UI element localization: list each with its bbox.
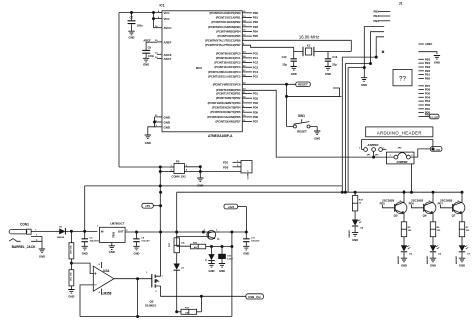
svg-text:G: G — [217, 237, 220, 241]
svg-text:GND: GND — [291, 72, 297, 76]
header name box ARDUINO_HEADER — [366, 127, 433, 137]
main +5V rail from regulator — [125, 231, 246, 233]
base net label PD5 — [380, 201, 395, 207]
svg-text:CONN_3: CONN_3 — [248, 170, 250, 180]
svg-text:C11: C11 — [251, 238, 256, 240]
svg-text:C13: C13 — [332, 55, 337, 59]
svg-text:BARREL_JACK: BARREL_JACK — [12, 245, 36, 249]
junction R17 left on zener leg — [176, 311, 178, 313]
svg-text:MCU: MCU — [196, 66, 202, 70]
resistor R11 divider bottom — [69, 263, 74, 289]
header pin PB0 — [418, 77, 430, 81]
ground below D5 — [401, 258, 407, 267]
svg-text:+3v3: +3v3 — [228, 205, 235, 209]
capacitor C6 100u/16V — [82, 231, 100, 246]
svg-text:USB_Vcc: USB_Vcc — [248, 295, 261, 299]
ground below C12 — [291, 67, 297, 76]
svg-text:PD4: PD4 — [253, 106, 259, 110]
svg-text:(PCINT19/OC2B/INT1)PD3: (PCINT19/OC2B/INT1)PD3 — [208, 101, 241, 105]
svg-text:X1: X1 — [307, 43, 311, 47]
svg-text:PC_INT: PC_INT — [430, 117, 438, 119]
wire P2 pin2 pin4 to gnd — [188, 167, 200, 178]
pin PC2 25 with net label PC2 — [242, 61, 258, 65]
junction pad2 on serial wire — [373, 156, 375, 158]
net flag +5V — [142, 203, 162, 208]
junction P2 gnd tie — [199, 166, 201, 173]
resistor R5 emitter — [401, 222, 412, 246]
svg-text:PD7: PD7 — [253, 120, 259, 124]
svg-text:(PCINT13/SCL/ADC5)PC5: (PCINT13/SCL/ADC5)PC5 — [208, 75, 241, 79]
header pin PD5 — [418, 92, 430, 96]
wire VCC top rail — [119, 12, 157, 14]
junction C10 tap — [221, 245, 223, 247]
svg-text:(PCINT21/OC0B/T1)PD5: (PCINT21/OC0B/T1)PD5 — [210, 110, 241, 114]
svg-text:R7: R7 — [466, 227, 470, 229]
svg-text:D5: D5 — [409, 254, 413, 256]
IC ground pins tie wire — [148, 117, 157, 135]
transistor T1 npn regulator — [202, 230, 220, 242]
svg-text:U3A: U3A — [103, 269, 110, 273]
LED D5 AMBER — [397, 245, 413, 264]
svg-text:(PCINT23/AIN1)PD7: (PCINT23/AIN1)PD7 — [216, 120, 241, 124]
wire +5V vertical through P2 — [159, 167, 161, 232]
svg-text:D1: D1 — [60, 226, 64, 228]
wire JP2 drop to rail — [411, 164, 413, 192]
svg-text:RESET: RESET — [298, 83, 308, 87]
svg-text:PB5: PB5 — [374, 10, 380, 14]
svg-text:LM358: LM358 — [102, 292, 112, 296]
svg-text:PD3: PD3 — [425, 99, 431, 103]
svg-text:GREEN: GREEN — [349, 230, 351, 238]
svg-text:2: 2 — [411, 155, 413, 157]
svg-text:PB2: PB2 — [425, 69, 431, 73]
svg-text:22p: 22p — [282, 63, 287, 67]
svg-text:GND: GND — [459, 264, 465, 268]
wire bus a vertical — [342, 57, 376, 192]
svg-text:CON1: CON1 — [20, 222, 29, 226]
net stub PC2 top right — [374, 10, 391, 14]
svg-text:GND: GND — [430, 264, 436, 268]
capacitor C7 100n — [128, 13, 143, 32]
wire opamp minus input feedback — [80, 285, 93, 317]
switch SW1 — [287, 114, 318, 133]
svg-text:C6: C6 — [90, 238, 94, 240]
svg-text:GND: GND — [39, 254, 45, 258]
svg-text:AVCC: AVCC — [164, 26, 173, 30]
svg-text:GND: GND — [361, 83, 367, 87]
capacitor C9 100n — [142, 42, 154, 58]
svg-text:(PCINT12/SDA/ADC4)PC4: (PCINT12/SDA/ADC4)PC4 — [208, 70, 241, 74]
header pin GND with ground — [418, 52, 440, 65]
svg-text:1: 1 — [146, 272, 148, 274]
pin PC1 24 with net label PC1 — [242, 55, 258, 60]
svg-text:GND: GND — [143, 63, 149, 67]
ground below C10 — [219, 264, 225, 273]
svg-text:(PCINT4/MISO)PB4: (PCINT4/MISO)PB4 — [216, 29, 241, 33]
svg-text:1: 1 — [216, 230, 218, 232]
junction +3v3 rail — [245, 231, 247, 233]
svg-text:PC_INT: PC_INT — [432, 149, 440, 151]
junction divider tap top — [70, 230, 72, 232]
svg-text:JUMPER: JUMPER — [367, 143, 378, 147]
header pin PB1 — [418, 73, 430, 77]
svg-text:C7: C7 — [130, 16, 134, 20]
svg-text:GND: GND — [109, 250, 115, 254]
svg-text:(PCINT8/ADC0)PC0: (PCINT8/ADC0)PC0 — [216, 51, 241, 55]
net flag PC_INT lower — [430, 147, 442, 152]
header pin PC6 with flag — [418, 113, 439, 119]
junction base node riser — [231, 245, 233, 247]
junction bottom wire — [137, 315, 139, 317]
svg-text:PB0: PB0 — [425, 77, 431, 81]
svg-text:(PCINT9/ADC1)PC1: (PCINT9/ADC1)PC1 — [216, 56, 241, 60]
svg-text:GND: GND — [197, 183, 203, 187]
pin ADC7 22 — [155, 57, 172, 61]
svg-text:PB0: PB0 — [253, 11, 259, 15]
ground below power led — [352, 233, 358, 242]
svg-text:(PCINT16/RXD)PD0: (PCINT16/RXD)PD0 — [216, 88, 241, 92]
svg-text:(PCINT10/ADC2)PC2: (PCINT10/ADC2)PC2 — [214, 61, 241, 65]
pin PB5 17 with net label PB5 — [242, 34, 258, 38]
svg-text:(PCINT14/RESET)PC6: (PCINT14/RESET)PC6 — [213, 82, 241, 86]
svg-text:100n: 100n — [137, 24, 143, 28]
svg-text:Z1: Z1 — [206, 258, 208, 261]
svg-text:J1: J1 — [399, 2, 403, 6]
svg-text:IC1: IC1 — [160, 3, 165, 7]
zener diode Z2 — [174, 264, 185, 312]
svg-text:GND: GND — [219, 269, 225, 273]
pin PB3 15 with net label PB3 — [242, 25, 258, 29]
svg-text:GND: GND — [325, 72, 331, 76]
ground below D7 — [459, 258, 465, 267]
ground on bus — [361, 78, 367, 88]
junction power led tap — [354, 191, 356, 193]
resistor R7 emitter — [459, 222, 470, 246]
wire feedback drop — [137, 279, 139, 317]
svg-text:OUT: OUT — [118, 230, 124, 234]
svg-text:PB2: PB2 — [253, 20, 259, 24]
svg-text:16.00 MHz: 16.00 MHz — [299, 35, 319, 40]
junction usb row tap — [200, 295, 202, 297]
pin GND 3 — [156, 125, 170, 129]
svg-text:PD5: PD5 — [253, 110, 259, 114]
ground below C6 — [82, 246, 88, 255]
svg-text:1u/6V: 1u/6V — [227, 259, 233, 261]
svg-text:JP6: JP6 — [398, 148, 403, 150]
svg-text:GND: GND — [82, 252, 88, 256]
svg-text:(PCINT20/XCK/T0)PD4: (PCINT20/XCK/T0)PD4 — [212, 106, 241, 110]
svg-text:P2: P2 — [176, 160, 180, 164]
junction output feedback tap — [137, 278, 139, 280]
header pin PD2 — [418, 103, 430, 107]
svg-text:PB5: PB5 — [253, 34, 259, 38]
svg-text:GND: GND — [164, 115, 170, 119]
svg-text:Q7: Q7 — [452, 214, 456, 218]
svg-text:GND: GND — [243, 252, 249, 256]
pin PB4 16 with net label PB4 — [242, 30, 258, 34]
ground below divider — [68, 290, 74, 299]
svg-text:PD3: PD3 — [253, 101, 259, 105]
wire vin vertical from line1 — [84, 186, 86, 231]
svg-text:Q5: Q5 — [394, 214, 398, 218]
wire JP2 to flag — [418, 149, 431, 157]
wire opamp output to Q3 gate — [114, 278, 152, 280]
wire feedback riser to base node — [231, 232, 233, 317]
svg-text:22p: 22p — [332, 63, 337, 67]
svg-text:PD1: PD1 — [425, 107, 431, 111]
svg-text:AREF: AREF — [164, 40, 172, 44]
svg-text:VCC: VCC — [164, 11, 171, 15]
svg-text:+5V: +5V — [145, 204, 150, 208]
crystal X1 — [294, 43, 352, 56]
pin GND 21 — [155, 115, 170, 119]
ground below D6 — [430, 258, 436, 267]
resistor R6 emitter — [430, 222, 441, 246]
ground below C13 — [325, 67, 331, 76]
junction reset tap — [285, 83, 287, 85]
wire pad2 drop — [373, 151, 375, 157]
header pin PB3 — [418, 65, 430, 69]
LED D6 AMBER — [426, 245, 442, 264]
svg-text:GND: GND — [401, 264, 407, 268]
svg-text:C10: C10 — [227, 256, 232, 258]
svg-text:AMBER: AMBER — [455, 256, 458, 264]
header pin PD4 — [418, 95, 430, 99]
base net label PD7 — [438, 201, 453, 207]
svg-text:(PCINT17/TXD)PD1: (PCINT17/TXD)PD1 — [216, 92, 241, 96]
ground below P2 — [197, 178, 203, 187]
svg-text:1N4004: 1N4004 — [57, 236, 65, 239]
ground below barrel jack — [39, 249, 45, 258]
svg-text:JP1: JP1 — [367, 154, 372, 156]
wire reset down to switch — [286, 84, 288, 126]
header pin PD7 — [418, 84, 430, 88]
svg-text:(PCINT7/XTAL2/TOSC2)PB7: (PCINT7/XTAL2/TOSC2)PB7 — [205, 43, 241, 47]
svg-text:150: 150 — [437, 230, 441, 232]
pin PD2 32 with net label PD2 — [242, 96, 258, 100]
svg-text:D6: D6 — [438, 254, 442, 256]
svg-text:PD6: PD6 — [253, 115, 259, 119]
resistor R10 divider top — [69, 231, 74, 259]
capacitor C8 100u/6V — [133, 232, 150, 246]
svg-text:SW1: SW1 — [298, 114, 305, 118]
svg-text:ARDUINO_HEADER: ARDUINO_HEADER — [377, 131, 422, 136]
svg-text:PB3: PB3 — [425, 65, 431, 69]
net label PD0 serial — [223, 165, 236, 169]
svg-text:PD6: PD6 — [409, 201, 415, 205]
IC right-side pin names column — [205, 11, 241, 124]
junction P2 +5V tie — [159, 166, 161, 168]
svg-text:8: 8 — [99, 264, 101, 266]
capacitor C13 22p — [325, 52, 338, 67]
svg-text:PB4: PB4 — [425, 61, 431, 65]
svg-text:1: 1 — [204, 230, 206, 232]
svg-text:D4: D4 — [360, 227, 364, 230]
jumper JP1 three pads — [359, 143, 386, 156]
svg-text:ADC7: ADC7 — [164, 57, 172, 61]
header pin PD0 — [418, 111, 430, 115]
svg-text:PB1: PB1 — [253, 16, 259, 20]
svg-text:10k: 10k — [181, 243, 185, 245]
svg-text:PB5: PB5 — [425, 57, 431, 61]
svg-text:R18: R18 — [359, 200, 364, 202]
wire x119 to P2 row — [119, 166, 174, 168]
transistor Q3 25J6021 p-fet — [145, 272, 164, 308]
svg-text:PD0: PD0 — [223, 165, 229, 169]
wire reset branch to bus — [287, 95, 342, 97]
svg-text:JP2: JP2 — [375, 154, 380, 156]
header pin PD1 — [418, 107, 430, 111]
ground below IC — [145, 135, 151, 145]
header pin PB2 — [418, 69, 430, 73]
svg-text:Z2: Z2 — [181, 268, 184, 270]
svg-text:PD2: PD2 — [253, 96, 259, 100]
svg-text:PB4: PB4 — [374, 14, 380, 18]
svg-text:GND: GND — [164, 125, 170, 129]
wire base loop — [177, 237, 207, 247]
junction P2 pin3 tie — [159, 170, 161, 172]
svg-text:R15: R15 — [169, 242, 171, 247]
svg-text:ATMEGA168P-A: ATMEGA168P-A — [208, 134, 233, 138]
svg-text:R6: R6 — [437, 227, 441, 229]
junction bypass flag wire — [432, 148, 434, 150]
svg-text:PD7: PD7 — [438, 201, 444, 205]
ground below C8 — [133, 246, 139, 255]
svg-text:PD5: PD5 — [425, 92, 431, 96]
junction JP2 drop — [410, 191, 412, 193]
wire header L3 — [376, 37, 384, 57]
net stub PC0 top right — [374, 19, 391, 23]
wire P2 gnd to connector pin3 — [200, 171, 236, 173]
svg-text:(PCINT6/XTAL1/TOSC1)PB6: (PCINT6/XTAL1/TOSC1)PB6 — [205, 38, 241, 42]
pin GND 5 — [156, 120, 170, 124]
ground below C9 — [143, 58, 149, 66]
svg-text:PD5: PD5 — [380, 201, 386, 205]
svg-text:100u/6V: 100u/6V — [141, 241, 150, 243]
junction C8 tap — [135, 231, 137, 233]
connector X4 serial 3pin — [236, 161, 252, 180]
svg-text:PC3: PC3 — [253, 65, 259, 69]
svg-text:R10 10k: R10 10k — [71, 245, 73, 254]
jumper JP2 arch — [386, 148, 417, 164]
pin PC6 29 reset wire — [242, 83, 295, 85]
junction line1 at x160 — [159, 185, 161, 187]
svg-text:GND: GND — [434, 61, 440, 65]
base net label PD6 — [409, 201, 424, 207]
net stub PC1 top right — [374, 14, 391, 18]
svg-text:AMBER: AMBER — [426, 256, 429, 264]
junction C6 tap — [84, 230, 86, 232]
wire header L2 — [371, 32, 385, 64]
junction bus a top — [375, 56, 377, 58]
resistor R15 — [169, 238, 185, 264]
svg-text:??: ?? — [399, 76, 406, 83]
pin PD3 1 with net label PD3 — [242, 101, 258, 105]
svg-text:PC1: PC1 — [253, 56, 259, 60]
svg-text:(PCINT5/SCK)PB5: (PCINT5/SCK)PB5 — [218, 34, 242, 38]
svg-text:PD6: PD6 — [425, 88, 431, 92]
pin AREF 20 — [155, 40, 172, 44]
transistor Q7 2SC3928 — [440, 191, 465, 222]
svg-text:AMBER: AMBER — [397, 256, 400, 264]
svg-text:RESET: RESET — [297, 130, 307, 134]
svg-text:JUMPER: JUMPER — [396, 160, 407, 164]
net flag RESET — [296, 82, 311, 87]
svg-text:AREF: AREF — [143, 38, 151, 42]
resistor R16 — [191, 243, 232, 250]
pin ADC6 19 — [155, 53, 172, 57]
header pin PD6 — [418, 88, 430, 92]
svg-text:1: 1 — [97, 226, 99, 228]
capacitor C10 1u/6V — [219, 247, 234, 264]
pin PB6 7 wire to crystal — [242, 39, 351, 41]
svg-text:3: 3 — [126, 230, 128, 232]
transistor Q5 2SC3928 — [382, 190, 407, 222]
svg-text:GND: GND — [129, 35, 135, 39]
svg-text:150: 150 — [466, 230, 470, 232]
wire Q3 drain up to rail — [160, 232, 162, 276]
svg-text:(PCINT1/OC1A)PB1: (PCINT1/OC1A)PB1 — [216, 16, 241, 20]
wire VCC vertical to power section — [118, 13, 120, 168]
junction bus c top — [363, 66, 365, 68]
junction divider tap — [70, 259, 72, 265]
svg-text:PB1: PB1 — [425, 73, 431, 77]
main horizontal line1 — [85, 185, 343, 187]
net flag USB_Vcc — [246, 294, 264, 299]
pin PD1 31 with net label PD1 — [242, 92, 258, 96]
svg-text:D7: D7 — [467, 254, 471, 256]
svg-text:1: 1 — [162, 276, 164, 278]
header pin PB5 — [418, 57, 430, 61]
wire R17 riser to usb row — [200, 296, 202, 312]
pin PD0 30 long wire — [243, 89, 246, 91]
junction bus a on rail — [341, 191, 343, 193]
svg-text:PD1: PD1 — [223, 161, 229, 165]
wire jumper bypass over — [362, 140, 433, 150]
svg-text:PD7: PD7 — [425, 84, 431, 88]
svg-text:C9: C9 — [148, 45, 152, 49]
wire bus b vertical — [345, 64, 370, 193]
pin PD6 10 with net label PD6 — [242, 115, 258, 119]
wire P2 pin3 — [160, 171, 174, 173]
svg-text:PB4: PB4 — [253, 30, 259, 34]
svg-text:100u/16V: 100u/16V — [90, 241, 100, 243]
pin PD7 11 with net label PD7 — [242, 120, 258, 124]
svg-text:25J6021: 25J6021 — [145, 304, 157, 308]
svg-text:PB3: PB3 — [374, 19, 380, 23]
svg-text:(PCINT18/INT0)PD2: (PCINT18/INT0)PD2 — [216, 96, 241, 100]
svg-text:PC0: PC0 — [253, 51, 259, 55]
pin PD5 9 with net label PD5 — [242, 110, 258, 114]
header pin AREF — [418, 42, 432, 46]
junction Q3 line1 — [160, 191, 162, 193]
zener diode Z1 — [206, 247, 215, 264]
junction riser rail — [231, 231, 233, 233]
svg-text:R5: R5 — [408, 227, 412, 229]
voltage regulator IC2 LM7805CT — [97, 221, 129, 254]
svg-text:(PCINT2/OC1B/SS)PB2: (PCINT2/OC1B/SS)PB2 — [211, 20, 241, 24]
header pin PD3 — [418, 99, 430, 103]
pin PB2 14 with net label PB2 — [242, 19, 258, 24]
net label PD1 serial — [223, 161, 236, 165]
resistor R17 — [177, 307, 202, 314]
svg-text:PD2: PD2 — [425, 103, 431, 107]
junction Q3 drain rail — [160, 231, 162, 233]
pin VCC 6 — [157, 17, 171, 21]
junction C7 tap — [130, 11, 132, 13]
IC U1 ATMEGA168 body — [160, 3, 243, 138]
svg-text:LM7805CT: LM7805CT — [110, 221, 125, 225]
